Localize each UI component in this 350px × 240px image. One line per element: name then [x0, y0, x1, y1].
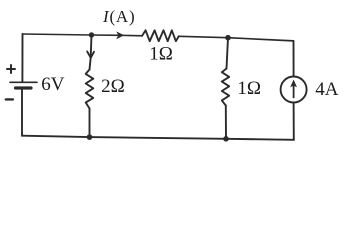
svg-text:4A: 4A — [315, 79, 339, 100]
svg-text:1Ω: 1Ω — [149, 43, 173, 64]
svg-text:I(A): I(A) — [102, 7, 135, 26]
svg-text:2Ω: 2Ω — [101, 76, 125, 97]
svg-text:6V: 6V — [41, 74, 65, 95]
svg-text:1Ω: 1Ω — [237, 78, 261, 99]
